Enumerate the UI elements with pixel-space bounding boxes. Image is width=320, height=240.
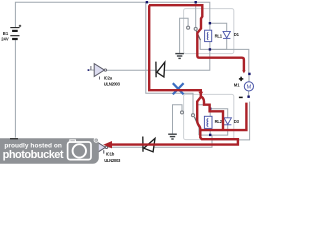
svg-text:photobucket: photobucket [3,149,64,161]
svg-text:B1: B1 [3,31,9,36]
svg-text:M: M [246,84,251,90]
svg-text:M1: M1 [234,83,240,88]
svg-text:RL2: RL2 [215,119,223,124]
svg-text:D3: D3 [234,119,240,124]
svg-text:24V: 24V [1,36,9,41]
svg-text:IC2a: IC2a [104,75,113,80]
svg-text:RL1: RL1 [215,33,223,38]
svg-text:IC1b: IC1b [106,152,115,157]
svg-text:ULN2003: ULN2003 [104,81,121,86]
svg-text:ULN2003: ULN2003 [104,158,121,163]
svg-text:D1: D1 [234,32,240,37]
